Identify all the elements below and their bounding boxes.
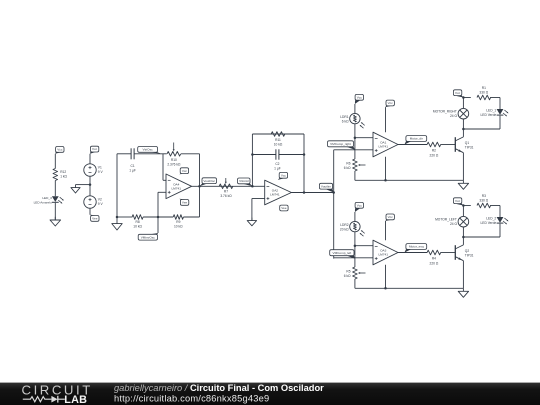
svg-text:LED Amarelo: LED Amarelo [34, 201, 53, 205]
svg-text:R8: R8 [136, 220, 140, 224]
svg-text:1 µF: 1 µF [129, 169, 136, 173]
svg-text:3.76 kΩ: 3.76 kΩ [220, 194, 232, 198]
svg-text:LM741: LM741 [378, 145, 388, 149]
svg-text:R7: R7 [224, 189, 228, 193]
svg-text:R9: R9 [176, 220, 180, 224]
svg-text:10 kΩ: 10 kΩ [274, 143, 283, 147]
svg-text:VMComp_right: VMComp_right [330, 142, 351, 146]
svg-text:6 kΩ: 6 kΩ [342, 120, 349, 124]
svg-text:1 kΩ: 1 kΩ [60, 175, 67, 179]
svg-text:R6: R6 [346, 161, 350, 165]
svg-text:R12: R12 [60, 170, 66, 174]
svg-text:Vcc: Vcc [357, 96, 363, 100]
svg-text:LAB: LAB [64, 394, 87, 405]
svg-text:20 kΩ: 20 kΩ [340, 228, 349, 232]
svg-text:Vcc: Vcc [455, 199, 461, 203]
svg-text:Vcc: Vcc [357, 204, 363, 208]
svg-text:R1: R1 [482, 86, 486, 90]
svg-text:6 kΩ: 6 kΩ [344, 274, 351, 278]
svg-text:Vcc: Vcc [455, 91, 461, 95]
svg-text:LM741: LM741 [378, 253, 388, 257]
svg-text:Vcc: Vcc [281, 174, 287, 178]
svg-text:R11: R11 [275, 138, 281, 142]
svg-text:http://circuitlab.com/c86nkx85: http://circuitlab.com/c86nkx85g43e9 [114, 394, 269, 404]
svg-text:MOTOR_LEFT: MOTOR_LEFT [435, 218, 457, 222]
svg-text:Motor_esq: Motor_esq [409, 245, 424, 249]
svg-text:C1: C1 [131, 164, 135, 168]
svg-text:LDR2: LDR2 [340, 223, 349, 227]
svg-text:330 Ω: 330 Ω [479, 199, 488, 203]
svg-text:10 kΩ: 10 kΩ [174, 225, 183, 229]
svg-text:LED_2: LED_2 [486, 216, 496, 220]
svg-text:Vee: Vee [92, 217, 98, 221]
svg-text:Vee: Vee [281, 206, 287, 210]
svg-text:V1: V1 [98, 165, 102, 169]
svg-text:Vcc: Vcc [388, 215, 394, 219]
svg-text:LM741: LM741 [270, 193, 280, 197]
svg-text:LM741: LM741 [171, 187, 181, 191]
svg-text:10 kΩ: 10 kΩ [133, 225, 142, 229]
svg-text:24 Ω: 24 Ω [450, 222, 458, 226]
svg-text:TIP31: TIP31 [465, 146, 474, 150]
svg-text:Q1: Q1 [465, 141, 470, 145]
svg-text:Vcc: Vcc [92, 147, 98, 151]
svg-text:LED Verde: LED Verde [480, 113, 496, 117]
svg-text:9 V: 9 V [98, 170, 104, 174]
svg-text:LED_1: LED_1 [486, 108, 496, 112]
svg-text:MOTOR_RIGHT: MOTOR_RIGHT [433, 110, 457, 114]
svg-text:Voutlim: Voutlim [321, 184, 332, 188]
svg-text:Vcc: Vcc [388, 101, 394, 105]
svg-text:330 Ω: 330 Ω [479, 91, 488, 95]
svg-text:1 µF: 1 µF [274, 167, 281, 171]
svg-text:9 V: 9 V [98, 202, 104, 206]
svg-text:Vlimitd: Vlimitd [239, 179, 249, 183]
svg-text:V2: V2 [98, 197, 102, 201]
svg-text:R2: R2 [432, 149, 436, 153]
svg-text:VMinvOsc: VMinvOsc [141, 235, 156, 239]
svg-text:R5: R5 [346, 269, 350, 273]
svg-text:VoutOsc: VoutOsc [203, 179, 215, 183]
svg-text:C2: C2 [275, 162, 279, 166]
svg-text:220 Ω: 220 Ω [430, 261, 439, 265]
svg-text:Vee: Vee [182, 201, 188, 205]
svg-text:VtriOsc: VtriOsc [143, 148, 154, 152]
svg-text:R3: R3 [482, 194, 486, 198]
svg-text:R4: R4 [432, 257, 436, 261]
svg-text:R10: R10 [171, 158, 177, 162]
svg-text:VMComp_left: VMComp_left [333, 251, 352, 255]
svg-text:24 Ω: 24 Ω [450, 114, 458, 118]
svg-text:220 Ω: 220 Ω [430, 153, 439, 157]
svg-text:6 kΩ: 6 kΩ [344, 166, 351, 170]
svg-text:TIP31: TIP31 [465, 254, 474, 258]
svg-text:LDR1: LDR1 [340, 115, 349, 119]
svg-text:Q2: Q2 [465, 249, 470, 253]
svg-text:Motor_dir: Motor_dir [410, 137, 423, 141]
svg-text:Vcc: Vcc [57, 148, 63, 152]
svg-text:gabriellycarneiro / Circuito F: gabriellycarneiro / Circuito Final - Com… [114, 383, 324, 393]
svg-text:LED Verde: LED Verde [480, 221, 496, 225]
svg-text:Vcc: Vcc [182, 169, 188, 173]
svg-text:2.376 kΩ: 2.376 kΩ [167, 163, 181, 167]
